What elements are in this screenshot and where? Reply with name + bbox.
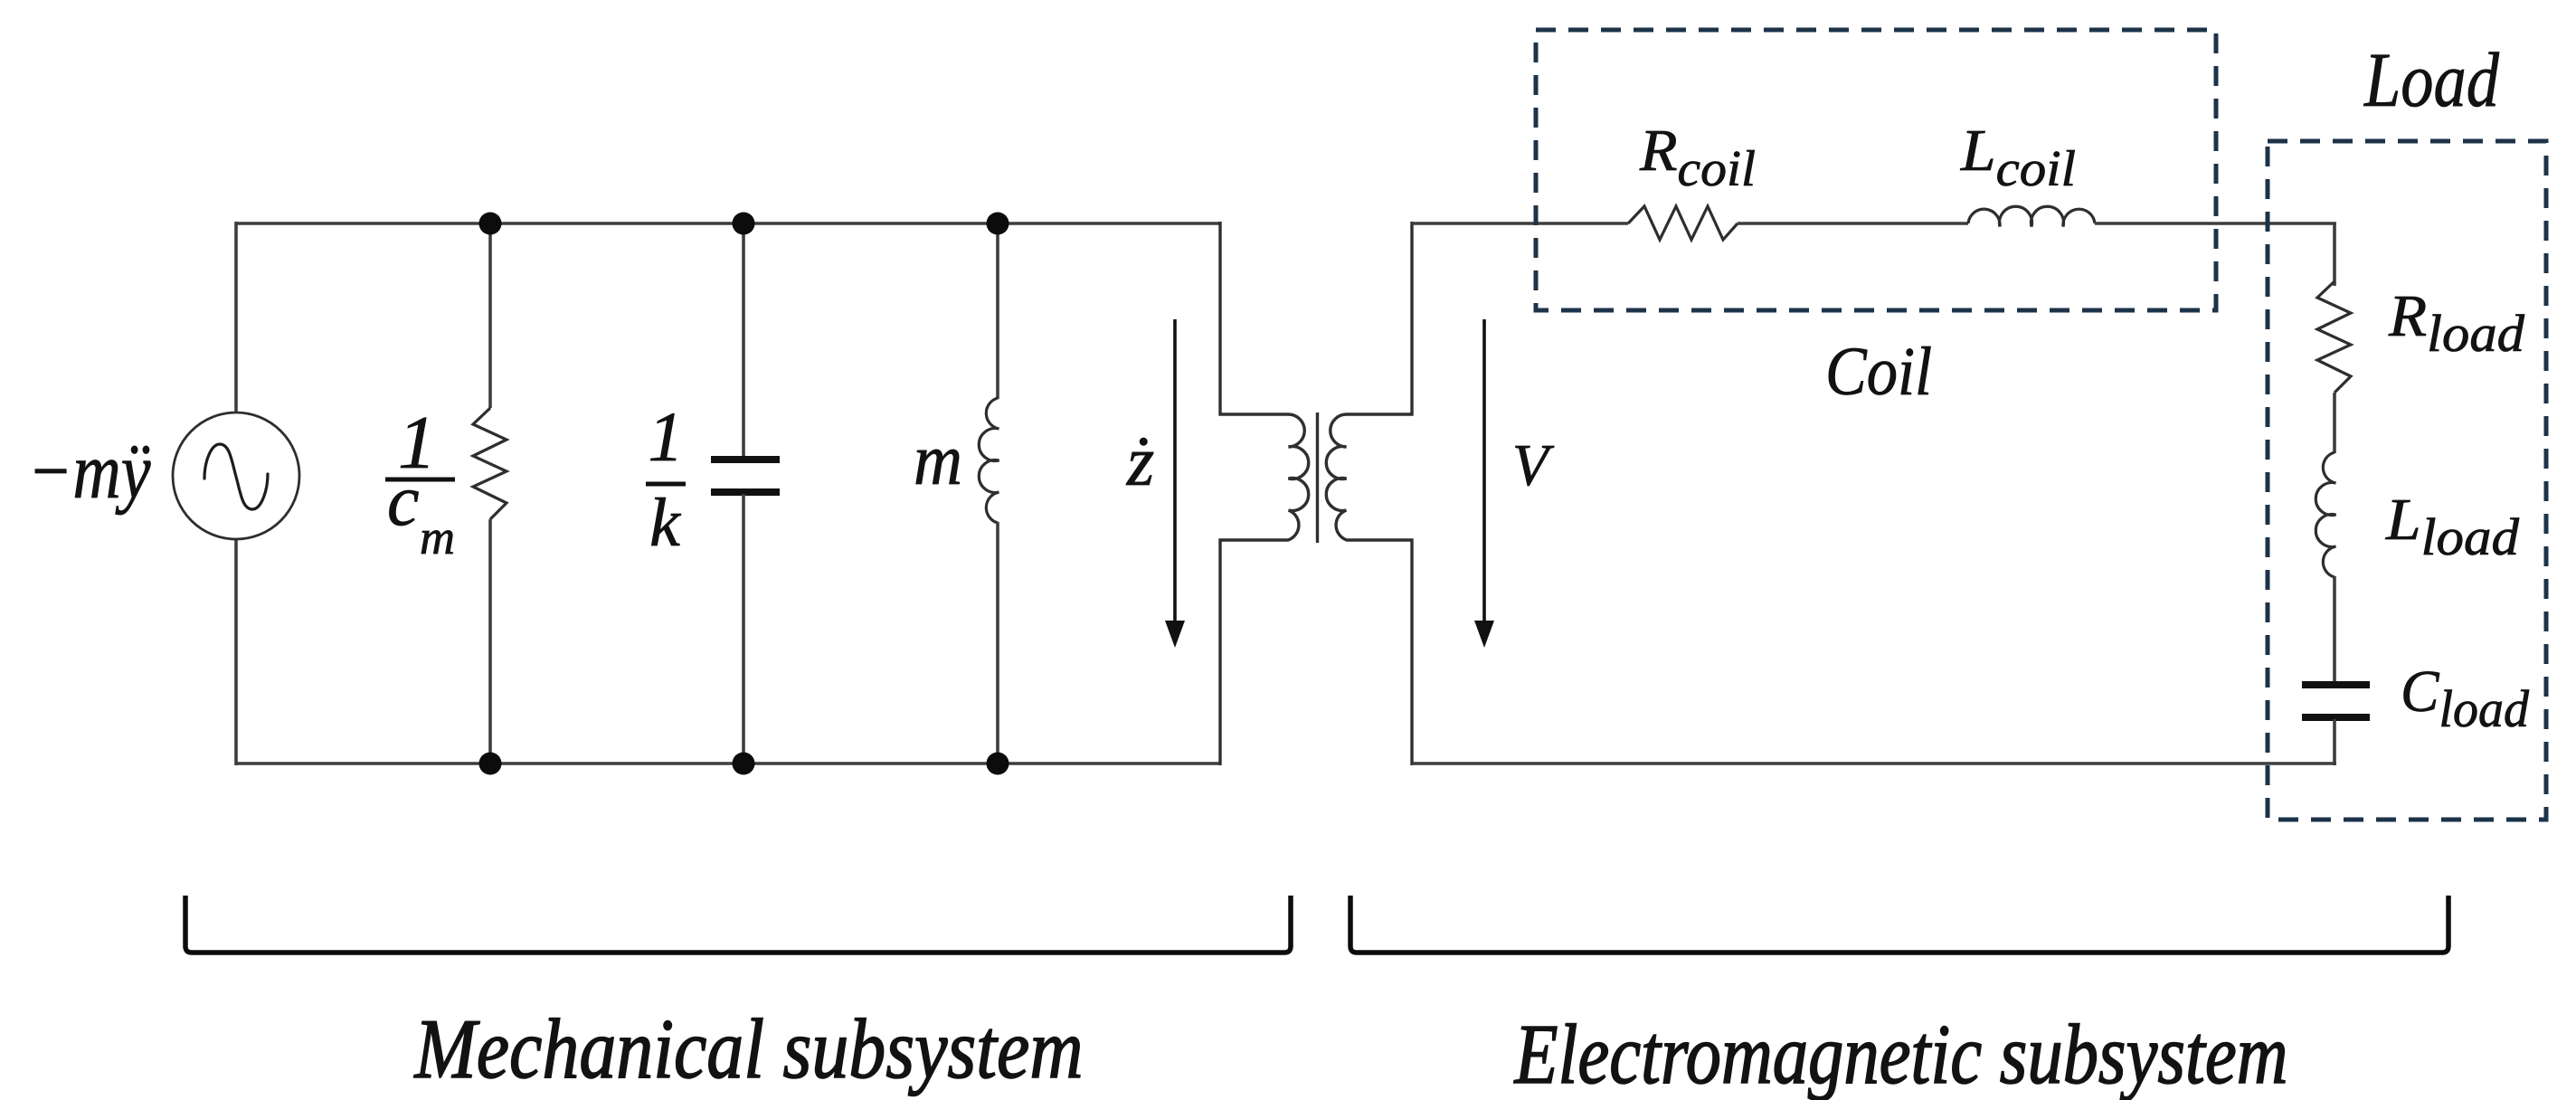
wire capacitor branch bottom <box>742 494 745 763</box>
brace electromagnetic subsystem <box>1350 896 2448 953</box>
resistor Rload <box>2317 281 2351 393</box>
transformer core <box>1316 412 1319 543</box>
svg-text:Coil: Coil <box>1825 334 1932 410</box>
wire bottom-left horizontal <box>236 762 1220 765</box>
wire inductor-m branch bottom <box>996 522 999 763</box>
resistor Rcoil <box>1628 206 1738 240</box>
wire Lload to Cload <box>2333 576 2336 683</box>
svg-text:Rload: Rload <box>2388 283 2525 363</box>
svg-text:m: m <box>420 510 455 564</box>
inductor m <box>979 398 999 523</box>
svg-text:c: c <box>387 461 420 541</box>
wire between Rcoil and Lcoil <box>1738 222 1968 225</box>
svg-text:V: V <box>1512 432 1555 498</box>
resistor 1/cm <box>473 408 507 519</box>
svg-text:m: m <box>914 421 962 500</box>
wire inductor-m branch top <box>996 223 999 399</box>
svg-text:Cload: Cload <box>2401 659 2530 738</box>
source -my circle <box>173 412 299 539</box>
node dot bottom 1 <box>479 753 502 775</box>
wire left vertical above source <box>234 222 238 412</box>
inductor Lcoil <box>1968 206 2095 226</box>
wire Rload to Lload <box>2333 393 2336 453</box>
capacitor Cload <box>2302 685 2370 717</box>
svg-text:Electromagnetic subsystem: Electromagnetic subsystem <box>1513 1008 2288 1100</box>
source sine glyph <box>204 444 268 509</box>
label 1/k fraction <box>646 397 686 561</box>
wire bottom-right horizontal <box>1412 762 2336 765</box>
arrow z-dot <box>1165 319 1185 648</box>
svg-text:ż: ż <box>1126 422 1154 500</box>
svg-text:1: 1 <box>649 397 684 476</box>
coil dashed box <box>1536 30 2216 310</box>
arrow V <box>1474 319 1494 648</box>
load dashed box <box>2268 141 2546 820</box>
node dot top 1 <box>479 213 502 235</box>
node dot bottom 2 <box>733 753 755 775</box>
wire Cload to bottom corner <box>2333 719 2336 765</box>
transformer secondary <box>1326 222 1412 765</box>
svg-text:Lload: Lload <box>2385 487 2520 566</box>
wire left vertical below source <box>234 539 238 765</box>
svg-text:Load: Load <box>2363 36 2500 123</box>
wire capacitor branch top <box>742 223 745 458</box>
wire top-left horizontal <box>236 222 1220 225</box>
node dot top 2 <box>733 213 755 235</box>
wire top-right horizontal left segment <box>1412 222 1628 225</box>
node dot top 3 <box>987 213 1009 235</box>
wire resistor branch bottom <box>488 519 492 763</box>
svg-text:Lcoil: Lcoil <box>1960 118 2076 197</box>
svg-text:Mechanical subsystem: Mechanical subsystem <box>413 1002 1084 1096</box>
capacitor 1/k <box>711 460 780 492</box>
wire Lcoil to load corner <box>2095 223 2336 286</box>
node dot bottom 3 <box>987 753 1009 775</box>
wire resistor branch top <box>488 223 492 408</box>
svg-text:−mÿ: −mÿ <box>28 428 152 516</box>
inductor Lload <box>2316 452 2335 577</box>
svg-text:Rcoil: Rcoil <box>1639 118 1756 197</box>
svg-text:k: k <box>649 485 681 561</box>
label 1/cm fraction <box>385 401 455 564</box>
brace mechanical subsystem <box>185 896 1291 953</box>
transformer primary <box>1220 222 1309 765</box>
